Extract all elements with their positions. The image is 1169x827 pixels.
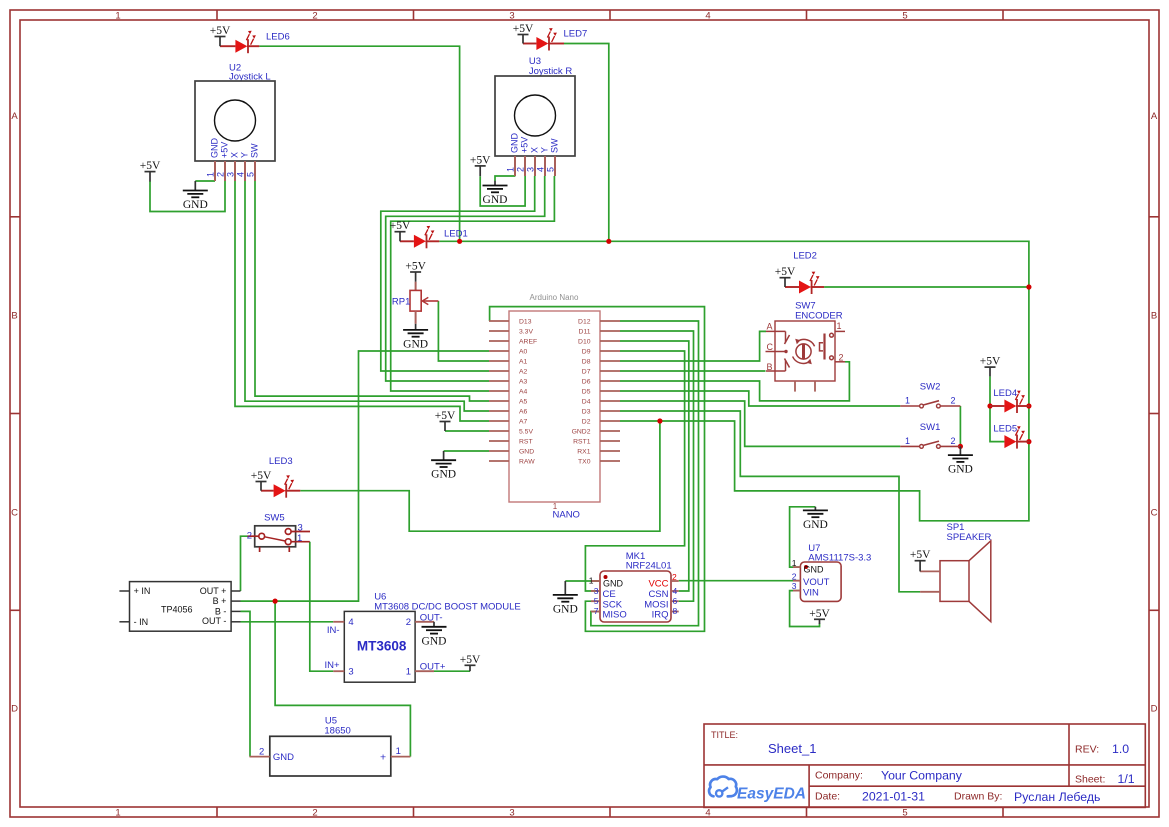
node junction LED7/LED1 net	[606, 239, 611, 244]
svg-text:TITLE:: TITLE:	[711, 730, 738, 740]
svg-text:A1: A1	[519, 359, 528, 366]
svg-text:A: A	[1151, 111, 1158, 122]
svg-text:5.5V: 5.5V	[519, 429, 533, 436]
svg-text:3: 3	[226, 172, 236, 177]
svg-text:4: 4	[536, 167, 546, 172]
wire TP4056 OUT- to MT3608 IN-	[241, 621, 334, 623]
svg-text:1: 1	[589, 576, 594, 586]
wire MK1 GND to ground	[565, 580, 600, 582]
svg-text:LED3: LED3	[269, 456, 293, 467]
svg-text:- IN: - IN	[134, 617, 149, 627]
svg-text:VIN: VIN	[803, 588, 819, 599]
svg-text:D4: D4	[582, 399, 591, 406]
+5V LED7	[513, 23, 534, 44]
svg-text:A5: A5	[519, 399, 528, 406]
svg-text:OUT-: OUT-	[420, 613, 443, 624]
svg-text:1: 1	[115, 808, 120, 819]
svg-text:Sheet_1: Sheet_1	[768, 741, 816, 756]
svg-text:3: 3	[509, 11, 514, 22]
ground U7	[803, 507, 828, 531]
svg-text:IN-: IN-	[327, 625, 340, 636]
wire Nano D7 to encoder B	[620, 370, 766, 372]
svg-text:OUT +: OUT +	[200, 586, 227, 596]
wire U3 SW to Nano A4	[391, 176, 555, 391]
svg-text:A2: A2	[519, 369, 528, 376]
svg-text:2: 2	[672, 572, 677, 582]
+5V speaker	[910, 549, 931, 571]
speaker SP1	[920, 522, 991, 622]
svg-text:LED2: LED2	[793, 250, 817, 261]
svg-text:A0: A0	[519, 349, 528, 356]
ground U2	[183, 181, 208, 211]
wire U2 X to Nano A7	[235, 181, 489, 421]
svg-text:2021-01-31: 2021-01-31	[862, 790, 925, 804]
svg-text:4: 4	[236, 172, 246, 177]
svg-text:MT3608 DC/DC BOOST MODULE: MT3608 DC/DC BOOST MODULE	[374, 601, 521, 612]
wire LED6 cathode down to LED1 net	[259, 46, 459, 241]
node junction LED4 anode +5V	[987, 403, 992, 408]
svg-text:X: X	[230, 152, 240, 158]
svg-text:A6: A6	[519, 409, 528, 416]
svg-text:3: 3	[526, 167, 536, 172]
svg-text:1: 1	[396, 746, 401, 757]
svg-text:D2: D2	[582, 419, 591, 426]
svg-text:3: 3	[509, 808, 514, 819]
+5V RP1	[405, 261, 426, 282]
svg-text:OUT -: OUT -	[202, 616, 226, 626]
svg-text:MISO: MISO	[603, 610, 627, 621]
wire RP1 wiper to Nano A1	[438, 301, 489, 361]
svg-text:GND2: GND2	[572, 429, 591, 436]
svg-text:1: 1	[905, 396, 910, 406]
svg-text:+: +	[380, 752, 386, 764]
svg-text:SW1: SW1	[920, 422, 941, 433]
svg-text:Your Company: Your Company	[881, 769, 963, 783]
svg-text:18650: 18650	[324, 725, 350, 736]
wire U3 X to Nano A2	[381, 176, 535, 371]
svg-text:Sheet:: Sheet:	[1075, 774, 1105, 786]
wire U2 Y to Nano A6	[245, 181, 489, 411]
svg-text:B +: B +	[213, 596, 227, 606]
wire Nano D8 to encoder A	[620, 331, 766, 361]
svg-text:GND: GND	[273, 752, 294, 763]
+5V Nano 5.5V pin	[435, 410, 456, 431]
svg-text:GND: GND	[519, 449, 534, 456]
svg-text:Руслан Лебедь: Руслан Лебедь	[1014, 790, 1100, 804]
svg-text:LED7: LED7	[564, 29, 588, 40]
wire SW5 pin1 to MT3608 IN+	[310, 542, 334, 672]
svg-text:D8: D8	[582, 359, 591, 366]
svg-text:D10: D10	[578, 339, 591, 346]
svg-text:RX1: RX1	[577, 449, 590, 456]
switch SW5	[247, 513, 310, 553]
svg-text:5: 5	[902, 808, 907, 819]
svg-text:3: 3	[792, 581, 797, 591]
svg-text:1: 1	[506, 167, 516, 172]
node junction Nano D2	[657, 418, 662, 423]
wire MK1 VCC to U7 VOUT	[679, 580, 801, 582]
svg-text:2: 2	[839, 353, 844, 363]
+5V U3	[470, 154, 491, 176]
wire Nano D10 to MK1 CSN	[620, 341, 689, 591]
svg-text:8: 8	[673, 606, 678, 616]
svg-text:A: A	[11, 111, 18, 122]
joystick U2	[195, 63, 275, 182]
svg-text:4: 4	[705, 11, 710, 22]
wire Nano D13 to MK1 SCK	[490, 307, 705, 632]
+5V LED6	[210, 25, 231, 46]
wire U2 GND pin1	[195, 180, 215, 182]
wire U7 GND pin1 to ground	[790, 507, 816, 567]
svg-text:5: 5	[246, 172, 256, 177]
wire U7 VIN to +5V	[790, 591, 820, 627]
wire U3 +5V to pin2	[480, 176, 525, 206]
led LED2	[785, 250, 824, 294]
svg-text:B: B	[767, 362, 773, 372]
title block	[704, 724, 1145, 807]
svg-text:2: 2	[792, 571, 797, 581]
svg-text:A3: A3	[519, 379, 528, 386]
rotary encoder SW7	[766, 301, 846, 392]
node junction LED2 net	[1026, 284, 1031, 289]
svg-text:CE: CE	[603, 589, 616, 600]
wire Nano D5 to SW2 pin1	[620, 391, 900, 406]
ground U3	[483, 181, 508, 206]
svg-text:1.0: 1.0	[1112, 742, 1129, 756]
svg-text:1: 1	[297, 533, 302, 544]
led LED5	[993, 424, 1029, 449]
svg-text:LED5: LED5	[993, 424, 1017, 435]
wire LED2 cathode to net	[824, 286, 1029, 288]
boost module U6 MT3608	[325, 592, 521, 683]
svg-text:SPEAKER: SPEAKER	[947, 532, 992, 543]
wire TP4056 B- to U5 pin2	[241, 611, 251, 756]
potentiometer RP1	[392, 282, 439, 324]
wire GND to Nano GND	[444, 450, 489, 452]
svg-text:1: 1	[837, 321, 842, 331]
svg-text:2: 2	[216, 172, 226, 177]
wire MT3608 OUT+ to +5V	[434, 670, 470, 672]
svg-text:OUT+: OUT+	[420, 661, 446, 672]
node junction SW1 pin2 GND	[958, 444, 963, 449]
wire SW2 pin2 to SW1 pin2	[959, 406, 961, 446]
svg-text:NRF24L01: NRF24L01	[626, 561, 672, 572]
svg-text:2: 2	[951, 436, 956, 446]
wire U2 SW to Nano A5	[255, 181, 489, 401]
wire +5V to Nano 5.5V	[445, 430, 489, 432]
svg-text:Drawn By:: Drawn By:	[954, 791, 1002, 803]
svg-text:5: 5	[546, 167, 556, 172]
battery U5 18650	[250, 716, 411, 777]
svg-text:2: 2	[247, 531, 252, 542]
regulator U7 AMS1117S-3.3	[792, 543, 872, 601]
svg-text:LED1: LED1	[444, 229, 468, 240]
svg-text:SW2: SW2	[920, 382, 941, 393]
svg-text:A7: A7	[519, 419, 528, 426]
svg-text:7: 7	[594, 606, 599, 616]
wire Nano D9 to MK1 CE	[585, 351, 684, 591]
+5V LED4/LED5 rail	[980, 356, 1001, 377]
svg-text:GND: GND	[603, 579, 624, 589]
svg-text:D: D	[1151, 704, 1158, 715]
led LED7	[523, 28, 587, 50]
svg-text:3: 3	[594, 586, 599, 596]
svg-text:+5V: +5V	[520, 137, 530, 153]
svg-text:+ IN: + IN	[134, 586, 151, 596]
svg-text:6: 6	[673, 596, 678, 606]
ground MK1	[553, 581, 578, 615]
svg-text:4: 4	[348, 617, 353, 628]
svg-text:C: C	[1151, 508, 1158, 519]
joystick U3	[495, 56, 575, 176]
+5V LED3	[251, 470, 272, 491]
wire LED1/D2 net long run	[439, 241, 1029, 521]
svg-text:D9: D9	[582, 349, 591, 356]
svg-text:SW5: SW5	[264, 513, 285, 524]
node junction LED6/LED1 net	[457, 239, 462, 244]
charger module TP4056	[119, 582, 240, 632]
switch SW1	[900, 422, 960, 448]
svg-text:GND: GND	[210, 138, 220, 159]
ground Nano GND pin	[431, 451, 456, 481]
wire Nano D3 to speaker lower pin	[620, 411, 920, 592]
svg-text:RAW: RAW	[519, 459, 535, 466]
svg-text:SW: SW	[550, 138, 560, 153]
svg-text:3: 3	[298, 523, 303, 534]
ground SW1	[948, 446, 973, 475]
svg-text:RP1: RP1	[392, 297, 410, 308]
wire U2 +5V to pin2	[150, 181, 225, 212]
svg-text:B: B	[1151, 311, 1157, 322]
svg-text:MT3608: MT3608	[357, 639, 407, 654]
svg-text:EasyEDA: EasyEDA	[737, 786, 806, 803]
svg-text:1: 1	[206, 172, 216, 177]
svg-text:VOUT: VOUT	[803, 577, 830, 588]
svg-text:1: 1	[792, 558, 797, 568]
+5V MT3608 OUT+	[460, 654, 481, 671]
svg-text:RST1: RST1	[573, 439, 591, 446]
wire U3 GND pin1	[495, 176, 515, 181]
svg-text:IN+: IN+	[325, 660, 341, 671]
svg-text:GND: GND	[804, 565, 825, 575]
wire Nano D12 to MK1 MISO	[591, 321, 699, 626]
svg-text:A4: A4	[519, 389, 528, 396]
svg-text:RST: RST	[519, 439, 533, 446]
wire B+ branch down to U5 battery +	[275, 601, 410, 757]
svg-text:Y: Y	[540, 147, 550, 153]
node junction battery B+	[273, 599, 278, 604]
svg-text:LED6: LED6	[266, 32, 290, 43]
svg-text:4: 4	[673, 586, 678, 596]
svg-text:CSN: CSN	[648, 589, 668, 600]
svg-text:2: 2	[259, 747, 264, 758]
svg-text:SW: SW	[250, 143, 260, 158]
led LED1	[400, 226, 468, 248]
wire Nano D11 to MK1 MOSI	[620, 331, 694, 601]
svg-text:+5V: +5V	[220, 142, 230, 158]
svg-text:D12: D12	[578, 319, 591, 326]
svg-text:D3: D3	[582, 409, 591, 416]
svg-text:C: C	[767, 342, 774, 352]
svg-text:LED4: LED4	[993, 388, 1017, 399]
svg-text:2: 2	[312, 11, 317, 22]
svg-text:D5: D5	[582, 389, 591, 396]
EasyEDA logo	[709, 777, 806, 803]
svg-text:1/1: 1/1	[1118, 772, 1135, 786]
svg-text:2: 2	[951, 396, 956, 406]
led LED6	[220, 31, 290, 53]
svg-text:D7: D7	[582, 369, 591, 376]
ground MT3608 OUT-	[422, 622, 447, 648]
svg-text:5: 5	[594, 596, 599, 606]
+5V U2	[140, 160, 161, 181]
svg-text:GND: GND	[510, 133, 520, 154]
+5V LED1	[390, 220, 411, 241]
node junction LED4 cathode	[1026, 403, 1031, 408]
node junction LED5 cathode	[1026, 439, 1031, 444]
svg-text:TP4056: TP4056	[161, 605, 193, 615]
+5V U7 VIN	[809, 608, 830, 624]
led LED3	[261, 456, 300, 498]
wire Nano D6 to encoder pin2	[620, 362, 849, 401]
Arduino Nano U1	[489, 293, 620, 521]
wire LED7 cathode down to LED1 net	[564, 44, 609, 242]
wire +5V rail to LED4 LED5 anodes	[990, 376, 1004, 441]
ground RP1	[403, 324, 428, 351]
svg-text:D11: D11	[579, 329, 591, 336]
svg-text:Arduino Nano: Arduino Nano	[530, 293, 579, 302]
svg-text:3.3V: 3.3V	[519, 329, 533, 336]
svg-text:A: A	[767, 322, 773, 332]
svg-text:D: D	[11, 704, 18, 715]
svg-text:AREF: AREF	[519, 339, 537, 346]
svg-text:ENCODER: ENCODER	[795, 311, 843, 322]
svg-text:2: 2	[406, 617, 411, 628]
svg-text:4: 4	[705, 808, 710, 819]
wire TP4056 OUT+ to SW5 pin2	[241, 536, 248, 591]
svg-text:3: 3	[348, 667, 353, 678]
svg-text:5: 5	[902, 11, 907, 22]
svg-text:IRQ: IRQ	[652, 610, 669, 621]
svg-text:1: 1	[905, 436, 910, 446]
NRF24L01 module MK1	[589, 551, 679, 622]
svg-text:D13: D13	[519, 319, 532, 326]
svg-text:TX0: TX0	[578, 459, 591, 466]
svg-text:Date:: Date:	[815, 791, 840, 803]
svg-text:2: 2	[312, 808, 317, 819]
svg-text:1: 1	[406, 667, 411, 678]
svg-text:Company:: Company:	[815, 770, 863, 782]
svg-text:VCC: VCC	[648, 579, 668, 590]
svg-text:C: C	[11, 508, 18, 519]
svg-text:Y: Y	[240, 152, 250, 158]
switch SW2	[900, 382, 960, 408]
wire Nano D4 to SW1 pin1	[620, 401, 900, 446]
wire battery B+ net to Nano A0	[241, 351, 490, 601]
svg-text:REV:: REV:	[1075, 744, 1099, 756]
wire U3 Y to Nano A3	[386, 176, 545, 381]
svg-text:D6: D6	[582, 379, 591, 386]
+5V LED2	[775, 266, 796, 287]
svg-text:B: B	[11, 311, 17, 322]
svg-text:NANO: NANO	[553, 510, 580, 521]
wire D2 branch to LED3	[300, 421, 660, 531]
svg-text:X: X	[530, 147, 540, 153]
svg-text:1: 1	[115, 11, 120, 22]
led LED4	[990, 388, 1030, 413]
svg-text:2: 2	[516, 167, 526, 172]
